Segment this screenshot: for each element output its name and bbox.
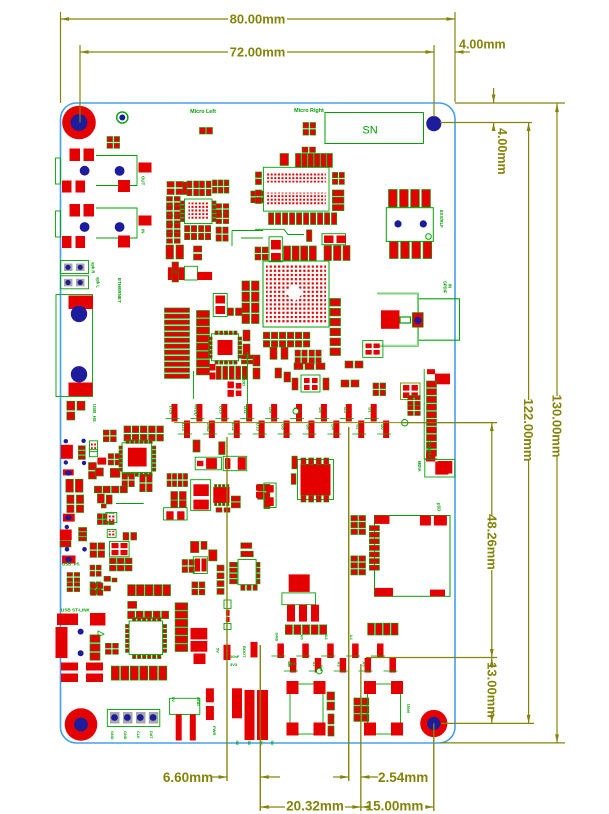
small parts right of USB_HS bbox=[89, 430, 121, 479]
svg-text:D12: D12 bbox=[231, 423, 236, 431]
extension line overlay x=227 bbox=[226, 437, 228, 781]
pads grid far right A bbox=[408, 396, 421, 416]
svg-text:BOOT: BOOT bbox=[242, 646, 247, 658]
pad column right of BGA bbox=[330, 299, 341, 356]
passives mid-center D bbox=[253, 355, 291, 382]
svg-text:Vin: Vin bbox=[319, 665, 324, 672]
svg-text:D2: D2 bbox=[355, 424, 360, 430]
pad row under QFN U4 bbox=[94, 486, 127, 493]
board outline bbox=[61, 103, 456, 743]
svg-text:D10: D10 bbox=[256, 423, 261, 431]
analog header A0-A5 bbox=[271, 633, 397, 674]
svg-text:4.00mm: 4.00mm bbox=[459, 38, 506, 52]
mid passives row bbox=[97, 494, 112, 508]
bars right of SOT223 bbox=[368, 623, 398, 635]
ethernet pin strip bbox=[165, 308, 190, 378]
svg-text:AVDD: AVDD bbox=[193, 404, 198, 416]
svg-text:µSD: µSD bbox=[437, 503, 442, 511]
BOOT pin bbox=[242, 642, 258, 658]
svg-text:2.54mm: 2.54mm bbox=[378, 770, 428, 785]
PWR pads bbox=[206, 688, 217, 735]
right edge pads cluster bbox=[258, 484, 271, 508]
ST-LINK QFN U5 bbox=[126, 618, 167, 659]
svg-text:5V: 5V bbox=[247, 741, 252, 746]
diode D green box bbox=[195, 457, 221, 470]
grid F bbox=[192, 582, 205, 595]
grid 2x3 between buttons bbox=[354, 698, 369, 721]
digital header D0-D15 bbox=[166, 404, 408, 438]
svg-text:5V: 5V bbox=[270, 741, 275, 746]
mounting hole top-right bbox=[426, 116, 441, 131]
svg-text:48.26mm: 48.26mm bbox=[484, 514, 499, 570]
svg-text:ETHERNET: ETHERNET bbox=[117, 278, 122, 303]
svg-text:USB_HS: USB_HS bbox=[92, 404, 97, 422]
cluster top E bbox=[182, 541, 217, 573]
dimension 4.00mm right vertical bbox=[440, 88, 565, 175]
svg-text:122.00mm: 122.00mm bbox=[521, 399, 536, 462]
pads pair right top bbox=[251, 191, 264, 203]
left edge col bottom bbox=[90, 635, 118, 660]
svg-text:GND: GND bbox=[274, 633, 279, 642]
USB_HS connector bbox=[61, 404, 97, 476]
ST-LINK USB connector bbox=[56, 613, 106, 658]
ethernet connector bbox=[56, 278, 122, 397]
pads near fiducial bbox=[200, 128, 213, 135]
pads left edge of display module bbox=[256, 172, 262, 204]
grids top A bbox=[90, 543, 105, 595]
svg-text:GND: GND bbox=[110, 731, 114, 740]
net trace mid bbox=[116, 503, 144, 505]
svg-text:6.60mm: 6.60mm bbox=[163, 770, 213, 785]
svg-text:80.00mm: 80.00mm bbox=[230, 12, 286, 27]
passive pairs left B bbox=[171, 492, 186, 508]
svg-text:130.00mm: 130.00mm bbox=[550, 395, 565, 458]
SOT223 regulator bbox=[282, 574, 319, 621]
svg-text:D1: D1 bbox=[368, 407, 373, 413]
dimension 6.60mm bottom bbox=[163, 437, 280, 811]
pad column right of ethernet pins bbox=[197, 311, 210, 375]
BGA U1 main processor bbox=[263, 261, 329, 327]
inductor green box bbox=[191, 480, 211, 511]
pad col of big pads bbox=[175, 603, 188, 652]
cluster below QFP bbox=[194, 355, 254, 399]
display module footprint top bbox=[263, 167, 329, 211]
caps above QFP bbox=[213, 294, 242, 317]
tactile switch USER bbox=[364, 681, 411, 736]
svg-text:User: User bbox=[406, 704, 411, 714]
svg-text:5V: 5V bbox=[171, 697, 176, 702]
column small bars between buttons bbox=[327, 692, 335, 736]
label AVDD trace bbox=[242, 352, 248, 418]
passives below QFN U4 bbox=[122, 473, 152, 491]
pads bottom-left cluster bbox=[61, 663, 103, 683]
capacitor pair above diode bbox=[193, 440, 225, 455]
SOIC U7 bbox=[298, 458, 334, 502]
audio jack IN bbox=[56, 204, 152, 248]
svg-text:D4: D4 bbox=[330, 424, 335, 430]
svg-text:3V3: 3V3 bbox=[230, 662, 238, 667]
pad col H bbox=[217, 565, 224, 594]
green-boxed grid right bbox=[401, 383, 421, 400]
dimension 130.00mm right vertical bbox=[441, 104, 565, 743]
pads pair mid2 bbox=[123, 533, 137, 541]
passives mid-center A bbox=[270, 347, 321, 364]
svg-text:D8: D8 bbox=[281, 424, 286, 430]
dimension 20.32mm bottom bbox=[260, 799, 361, 814]
grid 3x2 C bbox=[110, 558, 133, 571]
pads right of display module bbox=[332, 172, 344, 210]
tiny dotted part bbox=[107, 530, 116, 538]
bottom green box pads bbox=[164, 508, 188, 520]
passive row below QFN U2 bbox=[185, 226, 211, 261]
mounting hole bottom-right bbox=[420, 710, 447, 737]
power jumper 2-pin bbox=[170, 697, 201, 741]
svg-text:D9: D9 bbox=[268, 407, 273, 413]
svg-text:5V: 5V bbox=[235, 741, 240, 746]
pads left of SOIC bbox=[256, 456, 297, 507]
svg-text:A4: A4 bbox=[349, 634, 354, 640]
eth area trio bbox=[168, 266, 212, 280]
pads top-right G bbox=[241, 543, 254, 557]
tiny dotted part 2 bbox=[106, 513, 117, 523]
passive pairs left column bbox=[66, 479, 84, 512]
svg-text:GND: GND bbox=[206, 422, 211, 431]
svg-text:SPDIF: SPDIF bbox=[443, 281, 448, 294]
svg-text:D0: D0 bbox=[380, 424, 385, 430]
dimension 72.00mm horizontal bbox=[80, 45, 434, 123]
svg-text:GND: GND bbox=[196, 697, 201, 706]
mounting hole top-left bbox=[62, 106, 96, 140]
pad columns top mid-left bbox=[242, 281, 259, 324]
svg-text:PWR: PWR bbox=[212, 726, 217, 735]
svg-text:MDIA: MDIA bbox=[417, 461, 422, 472]
pad rows below BGA bbox=[263, 332, 309, 347]
USB_PS connector bbox=[60, 514, 87, 592]
svg-text:GND: GND bbox=[123, 731, 127, 740]
svg-text:A3: A3 bbox=[337, 661, 342, 667]
svg-text:10nF: 10nF bbox=[230, 654, 240, 659]
svg-text:D13: D13 bbox=[218, 406, 223, 414]
passives mid-center B bbox=[363, 341, 383, 358]
passives near QFP bbox=[243, 330, 250, 355]
oscillator module EXX bbox=[386, 190, 444, 259]
svg-text:SN: SN bbox=[362, 125, 377, 137]
pad row pairs double bbox=[124, 426, 163, 441]
QFP U3 bbox=[209, 331, 242, 364]
grids left of microSD bbox=[351, 516, 366, 575]
5V bar group bbox=[232, 688, 275, 745]
header strip row2 micro bbox=[269, 213, 337, 225]
QFN U2 with exposed pad bbox=[181, 199, 217, 224]
capacitor block C_top bbox=[107, 137, 120, 149]
svg-text:4.00mm: 4.00mm bbox=[495, 128, 509, 175]
svg-text:20.32mm: 20.32mm bbox=[286, 799, 344, 814]
dimension 122.00mm right vertical bbox=[441, 123, 536, 724]
micro SD socket bbox=[369, 503, 450, 596]
pad row of 7 bbox=[128, 585, 171, 596]
speaker connector spk L bbox=[61, 276, 101, 289]
svg-text:USB_PS: USB_PS bbox=[62, 562, 80, 567]
svg-text:D14: D14 bbox=[181, 423, 186, 431]
pads right of SOIC8 small bbox=[231, 496, 240, 508]
QFP U6 right bbox=[230, 560, 260, 591]
pads above USB_HS bbox=[67, 401, 85, 420]
camera connector bbox=[424, 369, 450, 475]
passive 2x2 pair A bbox=[167, 474, 188, 487]
svg-text:D6: D6 bbox=[305, 424, 310, 430]
svg-text:A0: A0 bbox=[299, 634, 304, 640]
header strip row1 micro bbox=[280, 147, 332, 167]
labels 10nF 3V3 GND bbox=[230, 654, 324, 672]
mounting hole bottom-left bbox=[65, 708, 98, 741]
SWD header 4-pin bbox=[107, 710, 160, 740]
extension line overlay x=433.8 bbox=[433, 723, 435, 811]
svg-text:D3: D3 bbox=[343, 407, 348, 413]
extension line overlay y=422.6 bbox=[174, 422, 497, 424]
svg-text:IN: IN bbox=[141, 229, 146, 233]
tiny cluster D bbox=[91, 576, 118, 595]
QFN U4 bbox=[119, 440, 156, 476]
svg-text:GND: GND bbox=[288, 661, 297, 666]
boot components on extension line bbox=[216, 600, 232, 660]
svg-text:IN: IN bbox=[448, 284, 453, 288]
svg-text:A5: A5 bbox=[362, 661, 367, 667]
big red block pair bbox=[191, 628, 208, 664]
svg-text:D15: D15 bbox=[169, 406, 174, 414]
SOIC8 small bbox=[213, 485, 230, 513]
dimension 80.00mm horizontal bbox=[61, 12, 456, 103]
svg-text:Micro Right: Micro Right bbox=[294, 108, 324, 114]
svg-text:A2: A2 bbox=[324, 634, 329, 640]
dimension 13.00mm right vertical bbox=[484, 658, 499, 724]
svg-text:D5: D5 bbox=[318, 407, 323, 413]
bar row bottom-left bbox=[111, 666, 167, 680]
passives mid-center C bbox=[294, 361, 363, 370]
svg-text:72.00mm: 72.00mm bbox=[230, 45, 286, 60]
pad row below SOT223 bbox=[285, 625, 326, 635]
fiducial top-left bbox=[117, 112, 128, 123]
svg-text:15.00mm: 15.00mm bbox=[366, 799, 424, 814]
svg-text:A1: A1 bbox=[312, 661, 317, 667]
svg-text:13.00mm: 13.00mm bbox=[484, 662, 499, 718]
net trace corner bbox=[232, 231, 263, 247]
svg-text:spk L: spk L bbox=[96, 277, 101, 288]
extension line overlay x=348.7 bbox=[348, 427, 350, 781]
svg-text:CAMERA: CAMERA bbox=[427, 440, 432, 458]
extension line overlay y=657.5 bbox=[366, 657, 497, 659]
label SPDIF IN bbox=[443, 281, 453, 294]
svg-text:Micro Left: Micro Left bbox=[190, 109, 216, 115]
tactile switch RESET bbox=[287, 681, 326, 736]
passives right of mid cluster bbox=[341, 380, 386, 396]
audio jack OUT bbox=[56, 149, 152, 193]
dimension 2.54mm bottom bbox=[333, 427, 428, 811]
svg-text:EXX/RLF: EXX/RLF bbox=[439, 210, 444, 228]
extension line overlay x=260.3 bbox=[259, 645, 261, 811]
dimension 4.00mm top-right horizontal bbox=[455, 38, 506, 54]
MDIA part bbox=[417, 460, 455, 478]
passive row above QFN U2 bbox=[167, 180, 229, 196]
pads below Micro Right bbox=[303, 123, 316, 136]
passive pair mid-left bbox=[166, 245, 184, 282]
extension line overlay x=360.9 bbox=[360, 664, 362, 811]
svg-text:DAT: DAT bbox=[149, 731, 153, 739]
svg-text:AVDD: AVDD bbox=[242, 375, 247, 386]
grid 2x3 mid bbox=[97, 514, 114, 525]
dimension 48.26mm right vertical bbox=[366, 423, 499, 658]
passive column left of QFN U2 bbox=[167, 197, 181, 244]
passives right of QFN U2 bbox=[216, 204, 229, 242]
green-box pads B bbox=[110, 541, 130, 556]
passives below strip row2 bbox=[255, 229, 350, 261]
pad row of 6 below bbox=[128, 601, 169, 618]
svg-text:5V: 5V bbox=[216, 648, 221, 653]
svg-text:USB ST-LINK: USB ST-LINK bbox=[61, 608, 91, 613]
SN serial-number box bbox=[325, 113, 424, 144]
small cluster with green box mid bbox=[292, 375, 329, 392]
svg-text:CLK: CLK bbox=[136, 731, 140, 739]
dimension 15.00mm bottom bbox=[361, 723, 434, 813]
diode box 2 bbox=[223, 456, 247, 470]
svg-text:OUT: OUT bbox=[141, 176, 146, 186]
svg-text:spk R: spk R bbox=[91, 262, 96, 273]
SPDIF optical connector bbox=[377, 294, 460, 346]
speaker connector spk R bbox=[61, 261, 96, 274]
